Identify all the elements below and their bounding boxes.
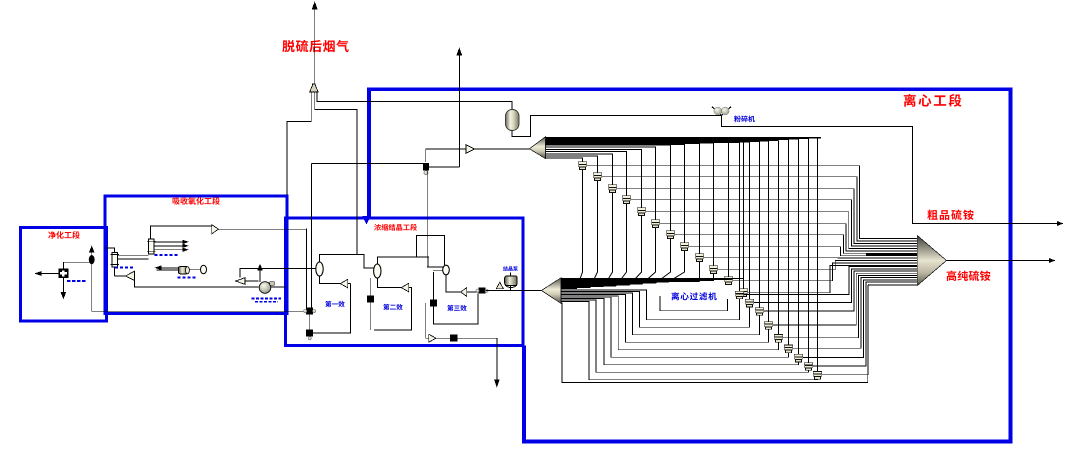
section box frame 净化工段 (box1) xyxy=(21,228,107,322)
wire long transfer line to box3 xyxy=(92,310,307,312)
label 第二效 xyxy=(383,304,389,310)
ball under J1 xyxy=(424,171,428,175)
wire V7 up and to first effect xyxy=(240,269,316,278)
wire flue-gas stack vertical xyxy=(314,5,316,85)
arrow discharge down xyxy=(495,380,499,387)
wire effect3 valve drop xyxy=(432,272,434,300)
wire effect1 bottom to triangle T1 xyxy=(320,276,341,284)
wire J1 down to third effect xyxy=(427,171,443,267)
label 粉碎机 xyxy=(734,116,741,123)
wire bundle lower cup outlets to product cone lower xyxy=(744,267,917,375)
wire fine product out xyxy=(947,260,1055,262)
pump2 circulation pump xyxy=(259,282,271,294)
column C2 xyxy=(112,253,118,268)
wire effect2 top loop to effect3 xyxy=(377,257,442,267)
wire gas line to box3 xyxy=(218,228,306,230)
centrifugal filter funnel cone xyxy=(542,278,562,304)
label 脱硫后烟气 xyxy=(282,40,294,52)
valve triangle left T1 xyxy=(340,279,348,287)
wire effect1 top loop to effect2 xyxy=(320,255,374,269)
wire bottom discharge line xyxy=(426,303,429,338)
oxidation vessel ellipse xyxy=(201,265,207,274)
valve triangle feed V1 xyxy=(466,145,475,154)
wire effect2 bottom to triangle T2 xyxy=(377,278,401,288)
wire scrubber outlet left xyxy=(36,273,58,275)
wire discharge to bottom arrow xyxy=(458,338,497,384)
product cone right (高纯硫铵) xyxy=(917,236,946,286)
junction square J1 xyxy=(423,163,429,170)
valve B black xyxy=(306,330,313,337)
valve triangle left V7 xyxy=(236,278,245,285)
wire chimney mid leg down to crystallizer loop xyxy=(315,92,357,255)
wire T2 recycle loop xyxy=(374,288,412,330)
wire effect1 recycle loop xyxy=(313,284,350,334)
wire T3 to valve D xyxy=(467,291,479,293)
blue dashed level box1 xyxy=(67,280,86,282)
valve D black xyxy=(479,288,486,294)
wire chimney left leg to box2 xyxy=(287,92,311,195)
wire effect3 bottom to triangle T3 xyxy=(446,275,461,292)
riser with black valve xyxy=(91,249,93,311)
wire effect3 vapor loop xyxy=(416,236,444,266)
effect3 vessel ellipse xyxy=(443,265,450,275)
wire column1 to gas valve xyxy=(151,226,212,239)
filter cups upper diagonal xyxy=(578,162,748,297)
valve F black xyxy=(450,335,458,342)
valve triangle gas V5 xyxy=(212,225,219,234)
blue dashed pump2 label xyxy=(252,298,281,300)
label 吸收氧化工段 xyxy=(173,198,180,205)
valve triangle right T4 xyxy=(429,334,436,342)
label 离心过滤机 xyxy=(671,292,679,300)
wire scrubber top to riser xyxy=(63,262,91,268)
wire pump1 suction with arrow xyxy=(157,267,179,269)
wire capsule bottom to crusher feed xyxy=(512,116,722,137)
wire column1 sprays right with arrows xyxy=(154,241,185,243)
wire J1 up to feed valve line xyxy=(426,149,466,162)
wire thick stack line xyxy=(866,253,918,255)
label 第一效 xyxy=(325,301,331,307)
arrow scrubber left xyxy=(36,272,42,276)
blue dashed under pump1 xyxy=(178,277,197,279)
wire T4 to valve F xyxy=(436,337,450,339)
wire columns link xyxy=(117,254,148,256)
blue dashed under column1 xyxy=(155,254,179,256)
label 粗品硫铵 xyxy=(927,210,937,220)
chimney cone xyxy=(310,84,318,92)
wire valve D to crystal pump and filter funnel xyxy=(486,290,542,292)
wire effect2 to bottom loop xyxy=(374,329,412,331)
crystal pump body xyxy=(505,276,518,286)
wire pump outlet down xyxy=(510,285,512,290)
arrow flue-gas up xyxy=(312,3,317,10)
blue flow arrow on box3 top edge xyxy=(363,216,371,224)
arrow fine product right xyxy=(1050,259,1055,263)
wire bundle long drops to lower cups xyxy=(740,138,818,371)
crystal pump impeller xyxy=(496,282,503,289)
arrow drain down xyxy=(61,293,65,299)
wire transfer header to junction square xyxy=(312,163,423,165)
wire pump2 riser arrow up xyxy=(259,267,261,282)
capsule separator tank xyxy=(506,110,520,131)
label 结晶泵 xyxy=(503,266,508,271)
label 高纯硫铵 xyxy=(947,271,957,281)
valve triangle left T2 xyxy=(401,283,409,291)
blue dashed under column2 xyxy=(115,266,135,268)
wire bundle filter band receiving lines xyxy=(561,279,743,289)
wire bundle filter band U loops up into lower cups xyxy=(561,285,918,382)
scrubber unit square with plus xyxy=(58,269,68,279)
wire effect3 recycle loop xyxy=(433,294,478,324)
wire header drop to valve A xyxy=(311,164,313,308)
wire scrubber drain down xyxy=(62,278,64,296)
label 净化工段 xyxy=(48,231,55,238)
wire T1 up loop xyxy=(348,283,351,285)
wire bundle top centrifuge band xyxy=(546,138,821,289)
wire valve V1 to centrifuge funnel xyxy=(475,148,530,150)
wire box edge to column C2 top xyxy=(105,248,114,253)
arrow coarse product right xyxy=(1058,222,1063,226)
section box frame 浓缩结晶工段 (box3) xyxy=(286,218,524,346)
section box frame 吸收氧化工段 (box2) xyxy=(105,196,287,314)
wire V7 to pump2 xyxy=(245,280,258,282)
valve C black on effect2 xyxy=(367,296,374,303)
arrow riser up xyxy=(90,247,94,253)
label box around 离心过滤机 xyxy=(660,296,727,311)
label 第三效 xyxy=(447,305,453,311)
valve triangle left V6 xyxy=(125,271,134,280)
column C1 xyxy=(149,239,154,254)
filter cups lower diagonal xyxy=(735,291,822,380)
valve E black on effect3 xyxy=(430,300,437,307)
wire pump1 to oxidation vessel xyxy=(189,268,200,270)
effect2 vessel ellipse xyxy=(374,264,381,278)
arrow recycle up xyxy=(457,49,462,56)
wire V6 bottom loop to pump2 xyxy=(135,281,259,288)
wire pump2 outlet right xyxy=(271,286,286,288)
wire recycle arrow vertical xyxy=(458,50,460,167)
wire junction to recycle xyxy=(429,166,459,168)
section box frame 离心工段 (big box) xyxy=(369,89,1011,441)
wire valveA down to valveB xyxy=(309,315,311,330)
valve triangle left T3 xyxy=(461,288,467,297)
wire gas line drop to valve A xyxy=(305,228,307,307)
wire crusher down and right to product line xyxy=(722,116,1061,224)
wire bundle cup drops to filter band xyxy=(577,170,744,297)
label 浓缩结晶工段 xyxy=(374,224,381,231)
label 离心工段 xyxy=(904,94,916,107)
wire effect2 valve drop xyxy=(370,278,372,296)
wire bundle cup outlets to product cone upper xyxy=(587,166,917,293)
crusher symbol xyxy=(712,107,731,116)
valve A black xyxy=(306,308,313,315)
pump1 horizontal cylinder xyxy=(179,267,188,274)
wire drop to oxidizer triangle xyxy=(114,267,116,276)
centrifuge funnel cone left xyxy=(530,137,546,159)
wire chimney right leg to capsule xyxy=(317,92,512,110)
effect1 vessel ellipse xyxy=(316,262,323,276)
